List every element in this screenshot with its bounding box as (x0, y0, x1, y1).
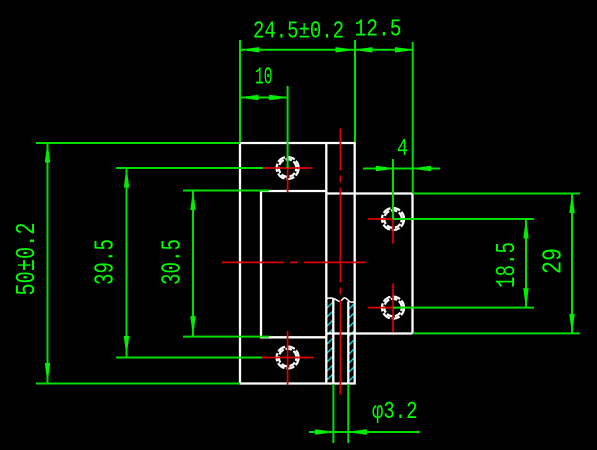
svg-text:30.5: 30.5 (159, 239, 189, 285)
svg-text:50±0.2: 50±0.2 (13, 223, 43, 296)
svg-text:10: 10 (255, 65, 273, 92)
svg-text:4: 4 (397, 136, 408, 163)
svg-text:39.5: 39.5 (92, 239, 122, 285)
svg-text:29: 29 (540, 248, 570, 274)
svg-text:12.5: 12.5 (355, 17, 402, 44)
svg-text:18.5: 18.5 (493, 242, 523, 288)
svg-text:φ3.2: φ3.2 (372, 399, 418, 426)
svg-text:24.5±0.2: 24.5±0.2 (253, 19, 344, 46)
